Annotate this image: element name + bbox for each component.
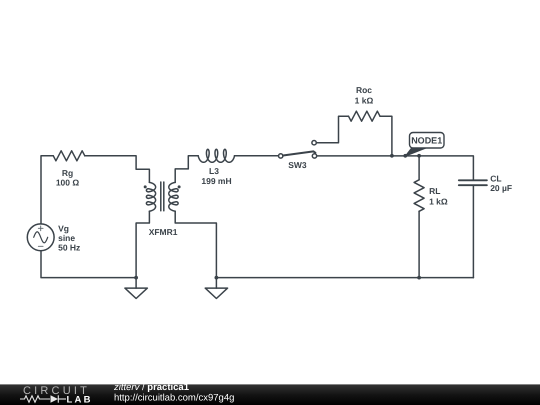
svg-text:zitterv / practica1: zitterv / practica1 bbox=[113, 382, 190, 393]
svg-text:NODE1: NODE1 bbox=[411, 136, 442, 146]
junction RL bottom bbox=[417, 276, 421, 280]
node flag NODE1 box bbox=[410, 133, 445, 149]
inductor L3 bbox=[198, 149, 234, 162]
resistor Rg bbox=[53, 151, 85, 161]
svg-text:1 kΩ: 1 kΩ bbox=[355, 96, 374, 106]
svg-text:1 kΩ: 1 kΩ bbox=[429, 197, 448, 207]
transformer core bbox=[160, 182, 162, 211]
capacitor CL bottom plate bbox=[459, 184, 487, 186]
footer bar bbox=[0, 384, 540, 405]
wire SW3 top terminal to Roc bbox=[316, 116, 348, 143]
ground right bbox=[205, 278, 227, 299]
node flag NODE1 tail bbox=[405, 148, 426, 156]
wire RL bottom lead bbox=[418, 211, 420, 277]
switch SW3 terminal left bbox=[279, 154, 283, 158]
svg-text:SW3: SW3 bbox=[288, 160, 307, 170]
wire transformer right bottom bbox=[175, 211, 216, 277]
resistor Roc bbox=[349, 111, 381, 121]
wire transformer left bottom bbox=[136, 211, 149, 277]
capacitor CL top plate bbox=[459, 179, 487, 181]
svg-text:Vg: Vg bbox=[58, 224, 69, 234]
wire L3 to SW3 bbox=[235, 155, 279, 157]
resistor RL bbox=[414, 180, 424, 212]
voltage source Vg bbox=[27, 224, 54, 251]
CircuitLab logo resistor-diode glyph bbox=[20, 395, 66, 402]
wire Vg bottom to ground junction bbox=[41, 251, 136, 278]
svg-text:20 µF: 20 µF bbox=[490, 183, 512, 193]
transformer XFMR1 left winding bbox=[146, 182, 155, 211]
wire left rail top bbox=[41, 156, 53, 224]
switch SW3 terminal upper bbox=[312, 141, 316, 145]
svg-text:L3: L3 bbox=[209, 166, 219, 176]
wire bottom rail right bbox=[216, 277, 473, 279]
junction ground left bbox=[134, 276, 138, 280]
svg-text:sine: sine bbox=[58, 233, 75, 243]
svg-text:LAB: LAB bbox=[67, 394, 93, 405]
wire Rg to transformer bbox=[85, 156, 150, 183]
wire RL top lead bbox=[418, 156, 420, 180]
switch SW3 terminal right bbox=[312, 154, 316, 158]
junction Roc bbox=[390, 154, 394, 158]
wire Roc right lead down bbox=[380, 116, 392, 156]
svg-text:XFMR1: XFMR1 bbox=[149, 227, 178, 237]
junction RL top bbox=[417, 154, 421, 158]
junction node flag bbox=[403, 154, 407, 158]
svg-text:100 Ω: 100 Ω bbox=[56, 177, 80, 187]
svg-text:199 mH: 199 mH bbox=[201, 176, 231, 186]
svg-text:50 Hz: 50 Hz bbox=[58, 243, 80, 253]
wire transformer right top to L3 bbox=[175, 156, 198, 183]
svg-text:RL: RL bbox=[429, 186, 440, 196]
polarity dot right bbox=[178, 185, 181, 188]
wire CL bottom lead bbox=[472, 185, 474, 277]
svg-text:http://circuitlab.com/cx97g4g: http://circuitlab.com/cx97g4g bbox=[114, 393, 234, 404]
transformer right winding bbox=[169, 182, 178, 211]
wire SW3 right terminal to CL bbox=[317, 156, 474, 180]
junction ground right bbox=[215, 276, 219, 280]
ground left bbox=[125, 278, 147, 299]
polarity dot left bbox=[144, 185, 147, 188]
switch SW3 lever bbox=[283, 151, 316, 155]
svg-text:Roc: Roc bbox=[356, 85, 372, 95]
